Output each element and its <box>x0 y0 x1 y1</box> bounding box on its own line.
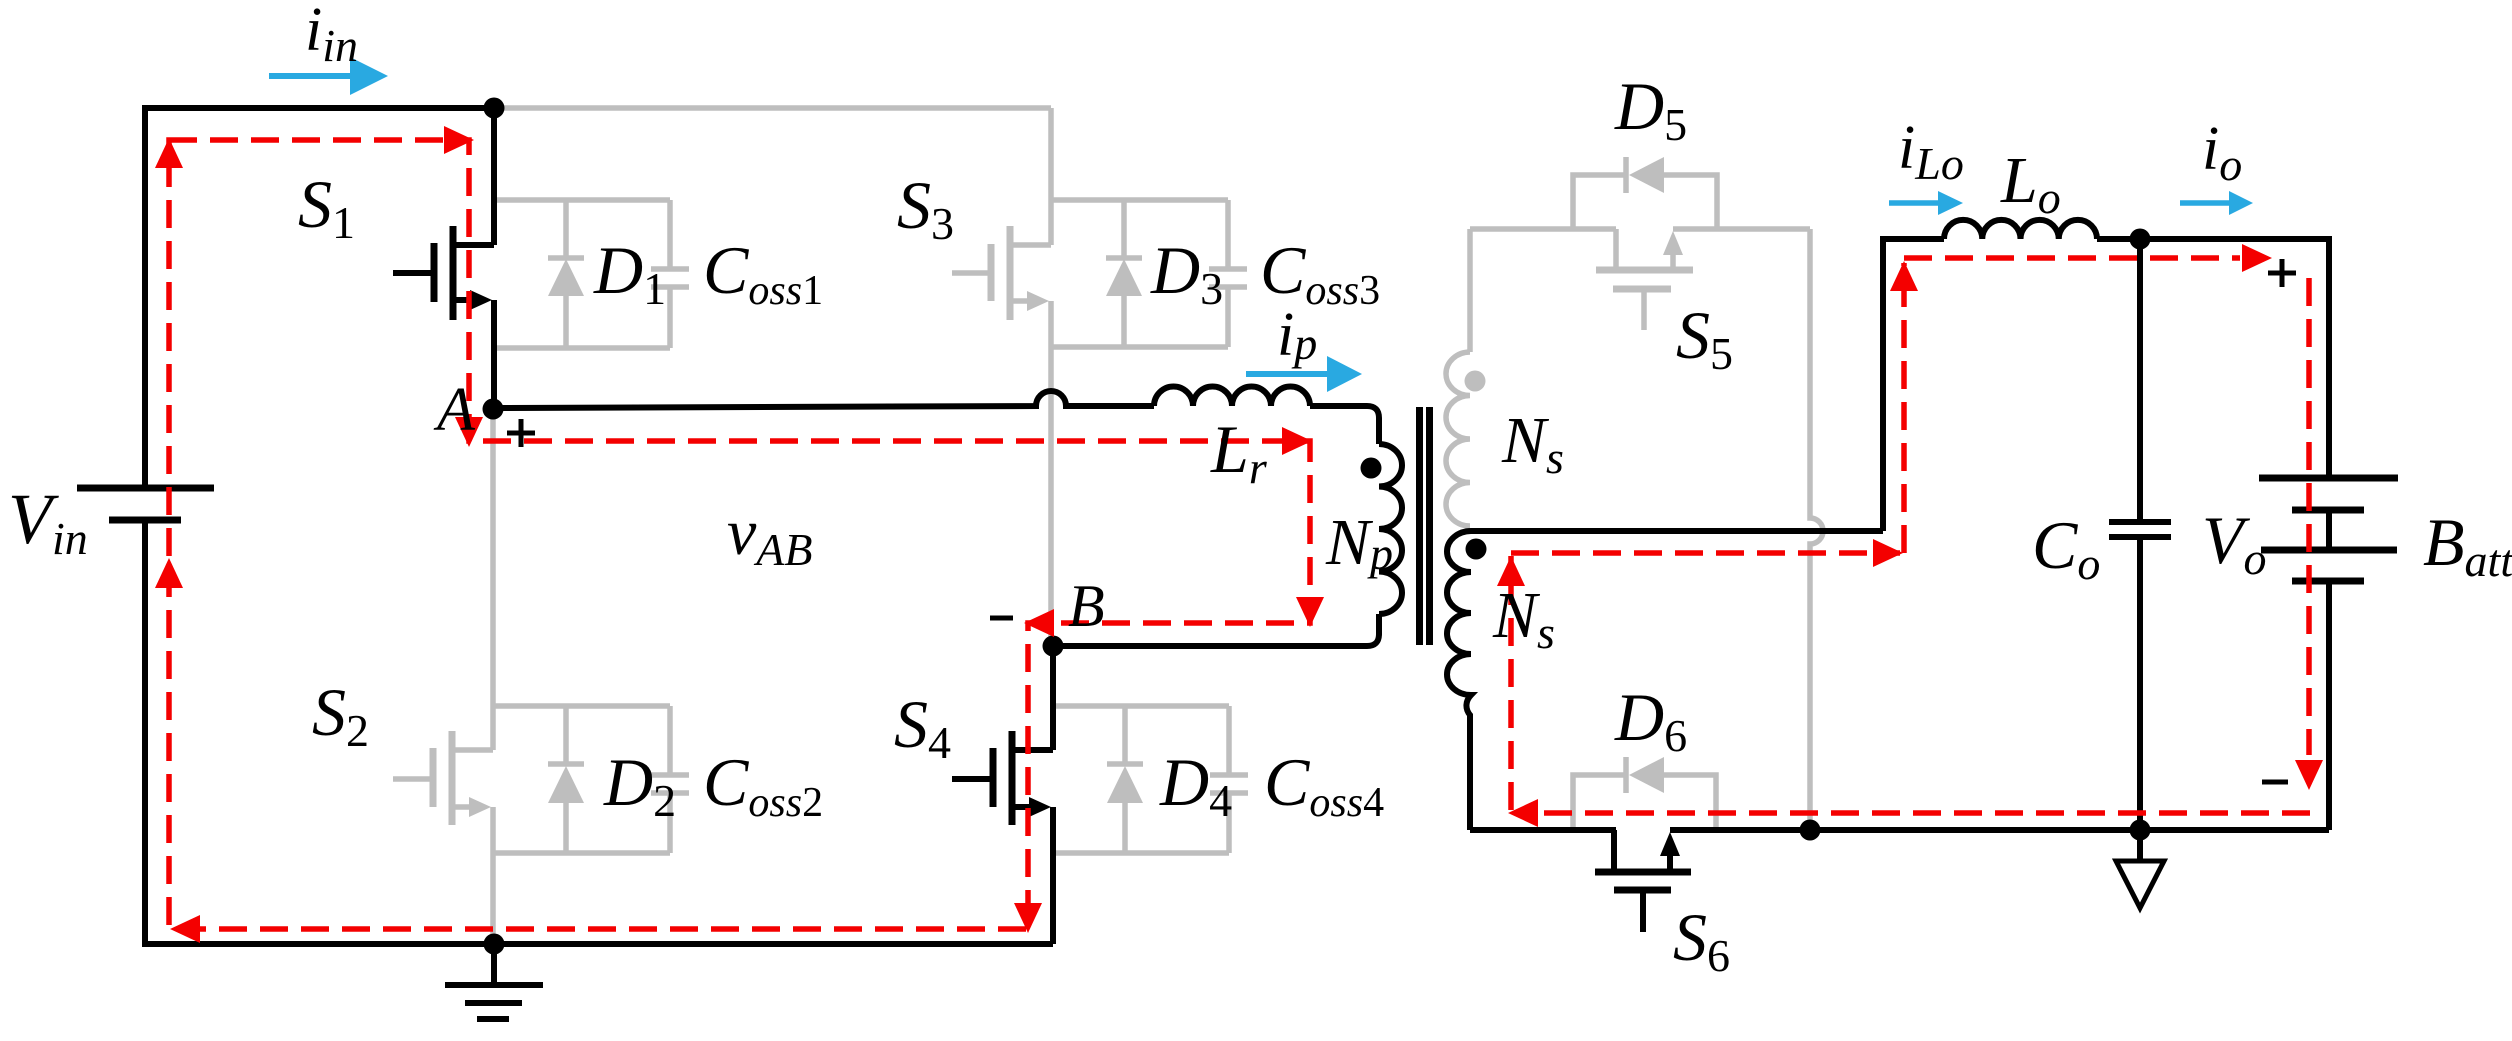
S5 drain arrow (up) <box>1663 231 1683 255</box>
plus at output (Vo+) <box>2268 259 2296 287</box>
diode D4 (gray antiparallel diode of S4) <box>1053 706 1229 853</box>
wire bottom rail secondary (right of S6) <box>1670 827 2329 833</box>
arrow i_in <box>269 73 350 79</box>
arrow i_Lo <box>1889 200 1938 206</box>
node bottom (ground junction) <box>484 934 505 955</box>
transformer core <box>1420 407 1430 645</box>
plus at node A (vAB+) <box>507 419 535 447</box>
wire gray left leg of S5 down to secondary winding <box>1467 229 1473 352</box>
wire top rail gray (node to S3 leg) <box>493 105 1051 111</box>
wire red dashed primary loop <box>169 140 1310 929</box>
transistor S6 (black MOSFET, below rail) <box>1595 830 1691 932</box>
capacitor Coss3 (gray) <box>1209 200 1247 347</box>
S6 drain arrow (up) <box>1660 832 1680 856</box>
node A <box>483 399 504 420</box>
wire Lr to transformer primary <box>1310 406 1379 444</box>
transistor S4 (black MOSFET) <box>952 645 1053 944</box>
diode D5 (gray, above S5) <box>1573 157 1717 229</box>
diode D1 (gray antiparallel diode of S1) <box>494 200 670 348</box>
winding Np (primary coil) <box>1379 444 1402 614</box>
minus at output (Vo-) <box>2262 780 2288 785</box>
wire red dashed secondary loop <box>1508 556 1514 810</box>
inductor Lr <box>1154 387 1310 407</box>
capacitor Coss2 (gray) <box>651 706 689 853</box>
svg-text:A: A <box>433 376 476 444</box>
transistor S3 (gray MOSFET, leg from top rail to node B) <box>952 108 1051 641</box>
winding Ns top (gray secondary coil) <box>1446 352 1470 526</box>
arrow i_o <box>2180 200 2229 206</box>
gray polarity dot of top Ns <box>1465 371 1486 392</box>
wire bottom rail secondary (left of S6) <box>1470 827 1616 833</box>
wire left: Vin bottom lead + bottom rail <box>145 520 1053 944</box>
capacitor Coss1 (gray) <box>651 200 689 348</box>
transistor S1 (black MOSFET) <box>393 108 494 409</box>
diode D2 (gray antiparallel diode of S2) <box>493 706 670 853</box>
ground (secondary side, open triangle) <box>2137 830 2143 861</box>
transistor S2 (gray MOSFET, leg from node A to bottom rail) <box>393 409 493 944</box>
node output (Lo/Co junction) <box>2130 229 2151 250</box>
source Vin (battery) <box>77 488 214 520</box>
transistor S5 (gray MOSFET, secondary top) <box>1470 229 1810 330</box>
S3 source arrow <box>1027 291 1049 311</box>
S2 source arrow <box>469 797 491 817</box>
S4 source arrow <box>1029 797 1051 817</box>
node A wire to Lr (with hop over S3 leg) <box>493 391 1154 408</box>
capacitor Co <box>2109 239 2171 830</box>
arrow i_p <box>1246 371 1327 377</box>
battery Vo / Batt <box>2259 478 2398 830</box>
node rail (S5 leg junction) <box>1800 820 1821 841</box>
diode D6 (gray, antiparallel to S6) <box>1573 757 1716 830</box>
minus at node B (vAB-) <box>990 616 1013 621</box>
wire gray right leg of S5 down to bottom rail (with hop over output wire) <box>1810 229 1823 830</box>
wire left: Vin top lead <box>142 105 148 488</box>
wire top rail (Vin+ to S1 drain node) <box>145 105 494 111</box>
winding Ns bottom (black secondary coil) + center tap wire <box>1447 531 1883 830</box>
red arrows secondary loop <box>1497 556 1525 586</box>
capacitor Coss4 (gray) <box>1210 706 1248 853</box>
diode D3 (gray antiparallel diode of S3) <box>1051 200 1228 347</box>
red arrows primary loop <box>444 126 474 154</box>
ground (primary side) <box>445 944 543 1019</box>
wire Lo to battery <box>2097 239 2329 478</box>
wire center tap riser + Lo lead <box>1883 239 1944 531</box>
node rail (Co/ground junction) <box>2130 820 2151 841</box>
node top (S1 drain) <box>484 98 505 119</box>
svg-text:B: B <box>1068 573 1105 639</box>
polarity dot of Np <box>1361 458 1382 479</box>
inductor Lo <box>1944 220 2097 239</box>
polarity dot of bottom Ns <box>1466 539 1487 560</box>
node B <box>1043 636 1064 657</box>
S1 source arrow <box>470 290 492 310</box>
wire primary bottom to node B <box>1053 614 1379 646</box>
